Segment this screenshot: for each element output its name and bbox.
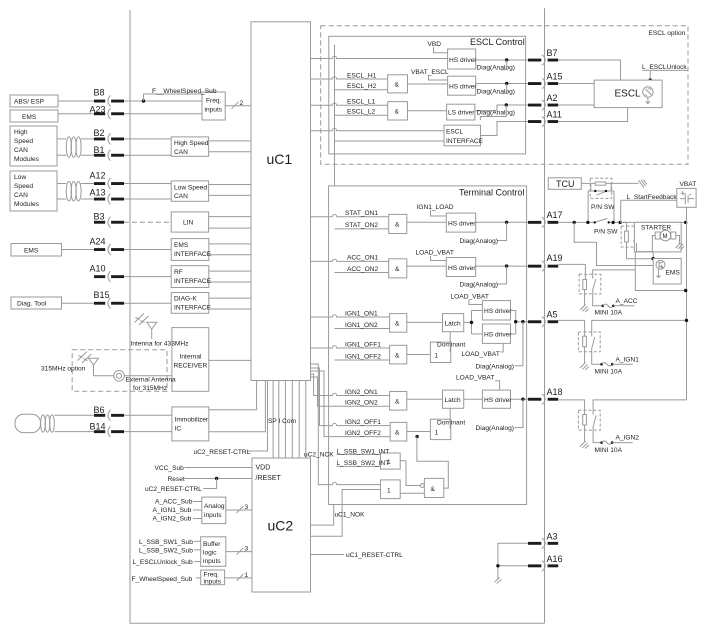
wire HS drivers outputs join to A5 bbox=[511, 311, 529, 335]
wire A19 to ACC relay bbox=[558, 264, 585, 279]
ground A3/A16 bbox=[495, 578, 502, 584]
wire HS driver 1 to pin B7 bbox=[476, 59, 528, 61]
wire diag tap A17 bbox=[498, 222, 507, 240]
wire and-gate H to HS driver 2 bbox=[408, 83, 448, 85]
node junction ESCL top bbox=[649, 78, 652, 81]
svg-text:Latch: Latch bbox=[445, 321, 461, 328]
node junction A16 bbox=[496, 564, 499, 567]
svg-text:F_WheelSpeed_Sub: F_WheelSpeed_Sub bbox=[132, 576, 193, 583]
svg-text:3: 3 bbox=[245, 504, 249, 511]
svg-text:Intenna for 433MHz: Intenna for 433MHz bbox=[131, 341, 189, 348]
ground starter motor bbox=[676, 243, 685, 250]
svg-text:uC1: uC1 bbox=[267, 151, 293, 167]
svg-text:inputs: inputs bbox=[204, 512, 222, 519]
op-amp and-gate ACC bbox=[389, 259, 407, 278]
svg-text:&: & bbox=[395, 266, 400, 273]
node HS driver 1 bbox=[448, 49, 476, 69]
switch P/N SW on A17 line bbox=[595, 218, 608, 222]
svg-text:3: 3 bbox=[245, 546, 249, 553]
wire junction up to Freq inputs bbox=[144, 94, 203, 101]
op-amp and-gate STAT bbox=[389, 214, 407, 233]
wire VBAT rail bbox=[686, 207, 688, 400]
wire LOAD_VBAT to HS driver IGN2 bbox=[495, 381, 500, 390]
fuse MINI 10A IGN1 bbox=[600, 363, 613, 366]
wire SPI bus 1 bbox=[272, 381, 274, 459]
wire A15 to ESCL box bbox=[558, 83, 594, 85]
node ACC relay dashed box bbox=[579, 274, 601, 294]
wire Freq inputs to uC1 with 2 marker bbox=[225, 105, 251, 107]
connector pin B15 bbox=[94, 290, 172, 309]
svg-text:LOAD_VBAT: LOAD_VBAT bbox=[416, 250, 454, 257]
wire VBAT feed IGN1 bbox=[592, 320, 687, 332]
node junction HS join bbox=[514, 320, 517, 323]
svg-text:1: 1 bbox=[387, 488, 391, 495]
svg-text:Diag(Analog): Diag(Analog) bbox=[460, 281, 498, 288]
svg-text:IC: IC bbox=[175, 426, 182, 433]
node bus width 1 (freq) bbox=[237, 574, 244, 581]
node High Speed CAN bbox=[171, 137, 208, 156]
svg-text:Speed: Speed bbox=[14, 183, 33, 190]
wire LS driver to pin A2 bbox=[475, 105, 528, 111]
wire ESCL_H1 (hop) bbox=[311, 77, 388, 79]
svg-text:IGN1_OFF2: IGN1_OFF2 bbox=[345, 353, 381, 360]
relay coil IGN2 bbox=[583, 415, 587, 426]
wire immobilizer to uC1 (2) bbox=[209, 381, 266, 432]
svg-text:ESCL_L1: ESCL_L1 bbox=[347, 99, 376, 106]
svg-text:EMS: EMS bbox=[666, 270, 681, 277]
wire ACC coil to ground bbox=[584, 290, 586, 306]
node EMS (lower) bbox=[11, 244, 62, 257]
node EMS INTERFACE bbox=[171, 239, 209, 261]
wire and-gate ACC to HS driver bbox=[407, 265, 447, 267]
svg-text:Dominant: Dominant bbox=[437, 342, 465, 349]
svg-text:MINI 10A: MINI 10A bbox=[595, 447, 623, 454]
svg-text:/RESET: /RESET bbox=[256, 475, 282, 482]
svg-text:&: & bbox=[395, 82, 400, 89]
svg-text:HS driver: HS driver bbox=[449, 57, 477, 64]
wire bus vertical in ESCL/Terminal bbox=[334, 45, 336, 437]
svg-text:B15: B15 bbox=[94, 290, 110, 300]
op-amp and-gate IGN1 off bbox=[390, 345, 407, 364]
node starter relay dashed box bbox=[621, 226, 642, 247]
svg-text:Buffer: Buffer bbox=[203, 541, 221, 548]
wire L_SSB_SW1_INT bbox=[337, 454, 381, 456]
svg-text:IGN1_ON2: IGN1_ON2 bbox=[345, 322, 378, 329]
node LIN bbox=[171, 212, 208, 232]
wire Freq inputs to uC2 bbox=[225, 577, 252, 579]
wire ACC contact to fuse bbox=[593, 294, 602, 306]
node HS driver IGN2 bbox=[482, 390, 510, 408]
wire A_ACC stub bbox=[613, 305, 634, 307]
node 315MHz option dashed box bbox=[72, 350, 167, 391]
svg-text:HS driver: HS driver bbox=[484, 397, 512, 404]
node uC1 bbox=[251, 22, 311, 381]
node EMS box bbox=[653, 259, 681, 285]
svg-text:Modules: Modules bbox=[14, 156, 40, 163]
svg-text:Diag(Analog): Diag(Analog) bbox=[460, 238, 498, 245]
svg-text:EMS: EMS bbox=[22, 114, 37, 121]
wire LOAD_VBAT to HS driver IGN1a bbox=[469, 300, 483, 305]
svg-text:A24: A24 bbox=[90, 236, 106, 246]
wire and-gate IGN1 to latch bbox=[407, 321, 443, 323]
svg-text:VCC_Sub: VCC_Sub bbox=[155, 465, 185, 472]
node STARTER box bbox=[634, 222, 681, 252]
wire A_IGN1_Sub bbox=[193, 509, 202, 511]
wire relay to A17 line bbox=[588, 191, 614, 222]
motor ESCL lock bbox=[643, 87, 653, 104]
svg-text:&: & bbox=[395, 109, 400, 116]
motor starter bbox=[655, 230, 676, 241]
svg-text:Diag. Tool: Diag. Tool bbox=[17, 301, 47, 308]
svg-text:B14: B14 bbox=[90, 421, 106, 431]
node bus width 3 (analog) bbox=[237, 506, 244, 513]
node junction diag A19 bbox=[505, 264, 508, 267]
connector pin B14 bbox=[90, 421, 172, 437]
wire L_ESCLUnlock bbox=[642, 70, 687, 80]
node EMS (top) bbox=[10, 110, 58, 122]
svg-text:A17: A17 bbox=[547, 210, 563, 220]
svg-text:HS driver: HS driver bbox=[484, 308, 512, 315]
svg-text:&: & bbox=[395, 429, 400, 436]
wire dominant to latch reset IGN1 bbox=[449, 332, 451, 352]
svg-text:ESCL option: ESCL option bbox=[649, 30, 686, 37]
wire IGN1 contact to fuse bbox=[592, 352, 602, 364]
svg-text:Freq.: Freq. bbox=[206, 98, 222, 105]
svg-text:Immobilizer: Immobilizer bbox=[175, 417, 210, 424]
node bus width 2 bbox=[232, 102, 239, 109]
connector pin A12 bbox=[90, 170, 172, 189]
wire B3 to LIN dashed bbox=[124, 221, 171, 223]
wire ESCL_H2 bbox=[335, 89, 388, 91]
node LS driver bbox=[447, 104, 475, 120]
node Low Speed CAN Modules bbox=[10, 171, 57, 211]
rf waves marks 433MHz bbox=[135, 314, 149, 326]
svg-text:B6: B6 bbox=[94, 405, 105, 415]
wire HS driver 2 to pin A15 bbox=[476, 83, 528, 85]
wire A_IGN1 stub bbox=[612, 363, 633, 365]
wire ACC_ON2 bbox=[335, 272, 389, 274]
svg-text:1: 1 bbox=[435, 430, 439, 437]
ground chassis TCU bbox=[639, 180, 647, 188]
node IGN1 relay dashed box bbox=[578, 332, 600, 352]
wire A_ACC_Sub bbox=[193, 501, 202, 503]
node junction diag A17 bbox=[505, 221, 508, 224]
wire L_ESCLUnlock_Sub bbox=[194, 561, 201, 563]
node Dominant IGN1 bbox=[430, 342, 450, 362]
node Dominant IGN2 bbox=[430, 419, 450, 439]
node HS driver IGN1a bbox=[482, 301, 510, 320]
wire or-gate 1b to and-gate bbox=[400, 492, 424, 494]
svg-text:INTERFACE: INTERFACE bbox=[174, 278, 212, 285]
wire VBAT feed IGN2 bbox=[593, 400, 686, 410]
svg-text:A13: A13 bbox=[90, 187, 106, 197]
svg-text:Low Speed: Low Speed bbox=[174, 184, 207, 191]
wire ESCL INTERFACE in 2 bbox=[335, 140, 445, 142]
wire dominant2 to latch2 reset bbox=[449, 408, 451, 429]
wire latch2 to HS driver IGN2 bbox=[464, 398, 483, 400]
node RF INTERFACE bbox=[171, 266, 209, 288]
svg-text:Low: Low bbox=[14, 174, 26, 181]
wire Diag.Tool to pin B15 bbox=[62, 302, 95, 304]
node Latch IGN2 bbox=[443, 390, 464, 408]
wire A5 to IGN1 relay bbox=[558, 320, 584, 336]
wire IGN1_OFF2 bbox=[335, 359, 390, 361]
svg-text:uC2_NCK: uC2_NCK bbox=[304, 451, 334, 458]
svg-text:inputs: inputs bbox=[204, 579, 222, 586]
svg-text:CAN: CAN bbox=[14, 192, 28, 199]
wire STAT_ON1 (hop) bbox=[311, 214, 389, 216]
svg-text:315MHz option: 315MHz option bbox=[41, 366, 86, 373]
node Reset junction bbox=[215, 477, 218, 480]
svg-text:RECEIVER: RECEIVER bbox=[174, 363, 208, 370]
svg-text:uC1_NOK: uC1_NOK bbox=[335, 512, 366, 519]
wire uC1_RESET-CTRL bbox=[311, 554, 345, 556]
svg-text:IGN1_ON1: IGN1_ON1 bbox=[345, 310, 378, 317]
svg-text:Freq.: Freq. bbox=[204, 572, 220, 579]
relay coil starter bbox=[625, 231, 629, 242]
node junction EMS corner bbox=[652, 257, 655, 260]
svg-text:&: & bbox=[431, 486, 436, 493]
wire L_StartFeedback bbox=[621, 200, 677, 222]
relay coil IGN1 bbox=[583, 336, 587, 347]
svg-text:LOAD_VBAT: LOAD_VBAT bbox=[451, 293, 489, 300]
node or-gate 1a bbox=[381, 453, 401, 469]
ground ACC coil bbox=[580, 305, 589, 313]
wire A17 coil feed bbox=[620, 222, 626, 231]
wire A18 to IGN2 relay bbox=[558, 400, 584, 415]
svg-text:CAN: CAN bbox=[174, 149, 188, 156]
svg-text:F__WheelSpeed_Sub: F__WheelSpeed_Sub bbox=[152, 88, 217, 95]
svg-text:&: & bbox=[395, 321, 400, 328]
wire twisted pair to pins B2 B1 bbox=[81, 139, 94, 155]
svg-text:B8: B8 bbox=[94, 88, 105, 98]
wire ESCL_L2 bbox=[335, 114, 388, 116]
svg-text:ABS/ ESP: ABS/ ESP bbox=[14, 99, 45, 106]
relay contact IGN1 bbox=[592, 332, 595, 352]
wire IGN1_ON1 (hop) bbox=[311, 315, 390, 317]
svg-text:VBAT: VBAT bbox=[680, 181, 697, 188]
svg-text:Diag(Analog): Diag(Analog) bbox=[477, 65, 515, 72]
svg-text:A5: A5 bbox=[547, 309, 558, 319]
connector pin B2 bbox=[94, 128, 172, 145]
svg-text:Diag(Analog): Diag(Analog) bbox=[477, 110, 515, 117]
svg-text:2: 2 bbox=[240, 100, 244, 107]
node junction latch fork bbox=[470, 321, 473, 324]
connector pin A19 bbox=[528, 253, 563, 272]
wire IGN2_ON1 bbox=[311, 374, 390, 396]
svg-text:RF: RF bbox=[174, 269, 183, 276]
svg-text:A2: A2 bbox=[547, 93, 558, 103]
connector pin B3 bbox=[94, 212, 125, 228]
svg-text:IGN2_ON2: IGN2_ON2 bbox=[345, 400, 378, 407]
connector pin A10 bbox=[90, 264, 172, 283]
wire SPI bus 2 bbox=[278, 381, 280, 459]
wire immobilizer to uC1 (1) bbox=[209, 381, 257, 410]
svg-text:HS driver: HS driver bbox=[448, 265, 476, 272]
svg-text:A11: A11 bbox=[547, 110, 562, 120]
wire IGN1 coil to ground bbox=[584, 347, 586, 363]
svg-text:ESCL: ESCL bbox=[615, 89, 642, 100]
svg-text:STAT_ON2: STAT_ON2 bbox=[345, 222, 378, 229]
wire A_IGN2_Sub bbox=[193, 518, 202, 520]
svg-text:Speed: Speed bbox=[14, 138, 33, 145]
svg-text:VBD: VBD bbox=[428, 41, 442, 48]
relay contact starter bbox=[634, 226, 637, 243]
op-amp and-gate IGN2 off bbox=[390, 422, 407, 441]
wire and-gate to dominant IGN1 bbox=[407, 354, 431, 356]
node Terminal Control box bbox=[329, 186, 527, 505]
wire HS driver ACC to pin A19 bbox=[476, 265, 528, 267]
svg-text:&: & bbox=[395, 222, 400, 229]
svg-text:INTERFACE: INTERFACE bbox=[174, 305, 212, 312]
svg-text:P/N SW: P/N SW bbox=[594, 229, 618, 236]
op-amp and-gate IGN2 on bbox=[390, 392, 407, 411]
wire HS CAN modules to twisted pair B2 bbox=[57, 139, 66, 155]
wire IGN1_OFF1 (hop) bbox=[311, 346, 390, 348]
wire L_SSB_SW2_INT bbox=[337, 465, 381, 467]
svg-text:Diag(Analog): Diag(Analog) bbox=[476, 363, 514, 370]
connector pin A15 bbox=[528, 72, 563, 89]
wire and-gate IGN2 to latch2 bbox=[407, 398, 443, 400]
wire motor to ground bbox=[676, 236, 680, 244]
wire A3 A16 to ground bbox=[498, 543, 528, 579]
svg-text:Analog: Analog bbox=[204, 503, 225, 510]
twisted pair HS CAN bbox=[66, 137, 81, 157]
wire LOAD_VBAT to HS driver ACC bbox=[431, 256, 447, 261]
relay contact IGN2 bbox=[593, 410, 596, 430]
wire uC1 to HS driver 1 (hop) bbox=[311, 56, 448, 58]
node ESCL INTERFACE bbox=[444, 125, 481, 146]
svg-text:HS driver: HS driver bbox=[484, 332, 512, 339]
wire ESCL INTERFACE to pin A11 bbox=[481, 122, 529, 136]
svg-text:A_IGN1: A_IGN1 bbox=[616, 356, 640, 363]
svg-text:IGN2_ON1: IGN2_ON1 bbox=[345, 389, 378, 396]
wire SPI bus 4 bbox=[291, 381, 293, 459]
node Freq. inputs (top) bbox=[202, 92, 225, 120]
svg-text:LOAD_VBAT: LOAD_VBAT bbox=[456, 375, 494, 382]
rf waves marks 315MHz bbox=[78, 352, 92, 364]
wire receiver to uC1 bbox=[209, 359, 251, 361]
fuse MINI 10A IGN2 bbox=[600, 441, 613, 444]
svg-text:A_ACC: A_ACC bbox=[616, 298, 638, 305]
op-amp and-gate IGN1 on bbox=[390, 314, 407, 333]
svg-text:STAT_ON1: STAT_ON1 bbox=[345, 210, 378, 217]
wire and-gate L to LS driver bbox=[408, 110, 447, 112]
svg-text:DIAG-K: DIAG-K bbox=[174, 296, 197, 303]
wire ECU bottom edge bbox=[130, 622, 545, 624]
node ESCL box bbox=[594, 80, 662, 108]
wire DIAG-K INTERFACE to uC1 bbox=[209, 298, 251, 309]
svg-text:for 315MHz: for 315MHz bbox=[133, 385, 167, 392]
twisted pair immobilizer bbox=[41, 415, 55, 432]
wire diag tap 3 bbox=[480, 105, 506, 120]
wire Buffer logic inputs to uC2 bbox=[226, 551, 252, 553]
wire RF INTERFACE to uC1 bbox=[209, 271, 251, 282]
svg-text:&: & bbox=[395, 352, 400, 359]
node ESCL Control box bbox=[329, 36, 526, 154]
node F__WheelSpeed_Sub junction bbox=[142, 99, 145, 102]
fuse MINI 10A ACC bbox=[602, 304, 615, 307]
node Internal RECEIVER bbox=[172, 328, 209, 392]
connector pin A13 bbox=[90, 187, 172, 204]
twisted pair LS CAN bbox=[66, 182, 81, 201]
node uC2 bbox=[252, 458, 311, 592]
node junction diag A5 bbox=[521, 320, 524, 323]
svg-text:LS driver: LS driver bbox=[448, 110, 475, 117]
connector pin B7 bbox=[528, 48, 558, 65]
svg-text:INTERFACE: INTERFACE bbox=[174, 251, 212, 258]
svg-text:LOAD_VBAT: LOAD_VBAT bbox=[462, 351, 500, 358]
svg-text:inputs: inputs bbox=[205, 107, 223, 114]
wire LOAD_VBAT label to HS driver IGN1b bbox=[501, 343, 504, 352]
node TCU bbox=[548, 178, 581, 190]
wire ECU right edge / connector line bbox=[544, 8, 546, 623]
wire L_SSB_SW1_Sub bbox=[194, 540, 201, 542]
wire starter box bottom to rail bbox=[635, 252, 685, 291]
svg-text:VBAT_ESCL: VBAT_ESCL bbox=[411, 69, 449, 76]
svg-text:External Antenna: External Antenna bbox=[126, 377, 177, 384]
svg-text:A19: A19 bbox=[547, 253, 563, 263]
svg-text:A15: A15 bbox=[547, 72, 563, 82]
wire connector to receiver bbox=[124, 375, 172, 377]
wire HS CAN to uC1 bbox=[209, 141, 251, 152]
immobilizer transponder coil bbox=[15, 414, 41, 432]
svg-text:1: 1 bbox=[435, 353, 439, 360]
wire HS driver IGN2 to pin A18 bbox=[511, 398, 529, 400]
ground IGN1 coil bbox=[580, 363, 589, 371]
wire A_IGN2 stub bbox=[612, 442, 633, 444]
svg-text:B3: B3 bbox=[94, 212, 105, 222]
wire ACC contact top to rail bbox=[593, 270, 636, 274]
node ESCL option dashed box bbox=[321, 26, 688, 164]
wire EMS to pin A23 bbox=[58, 113, 94, 115]
svg-text:HS driver: HS driver bbox=[448, 221, 476, 228]
svg-text:B1: B1 bbox=[94, 145, 105, 155]
svg-text:L_StartFeedback: L_StartFeedback bbox=[627, 194, 678, 201]
wire junction to uC2_RESET-CTRL label bbox=[204, 479, 217, 489]
wire and-gate STAT to HS driver bbox=[407, 221, 447, 223]
node junction diag A18 bbox=[521, 398, 524, 401]
node HS driver IGN1b bbox=[482, 324, 510, 343]
svg-text:Modules: Modules bbox=[14, 201, 40, 208]
svg-text:L_SSB_SW1_Sub: L_SSB_SW1_Sub bbox=[139, 539, 193, 546]
wire coil return to EMS corner bbox=[627, 242, 654, 259]
node junction diag 1 bbox=[505, 58, 508, 61]
fuse P/N SW relay bbox=[595, 182, 605, 185]
connector pin B6 bbox=[94, 405, 172, 421]
op-amp and-gate ESCL L bbox=[388, 102, 408, 120]
svg-text:L_SSB_SW1_INT: L_SSB_SW1_INT bbox=[337, 448, 390, 455]
wire diag tap 2 bbox=[500, 84, 507, 94]
wire ESCL INTERFACE in 1 (hop) bbox=[311, 128, 445, 130]
wire B7 to ESCL box bbox=[558, 60, 620, 80]
wire A11 to ESCL box bottom bbox=[558, 108, 627, 122]
svg-text:MINI 10A: MINI 10A bbox=[595, 309, 623, 316]
wire uC2 to or-gate 1b bbox=[311, 490, 381, 537]
svg-text:Latch: Latch bbox=[445, 397, 461, 404]
wire LS CAN to uC1 bbox=[209, 185, 251, 196]
svg-text:A_IGN2: A_IGN2 bbox=[616, 435, 640, 442]
wire F_WheelSpeed_Sub bbox=[196, 577, 201, 579]
wire diag tap A18 bbox=[514, 399, 523, 427]
wire antenna to connector circle bbox=[94, 375, 114, 377]
node Immobilizer IC bbox=[172, 407, 209, 441]
wire uC1 line down to or-gate 1b (hop) bbox=[311, 364, 381, 485]
svg-text:CAN: CAN bbox=[14, 147, 28, 154]
node Diag.Tool bbox=[11, 297, 62, 309]
wire diag tap A19 bbox=[498, 266, 507, 284]
wire A2 to ESCL box bbox=[558, 104, 594, 106]
